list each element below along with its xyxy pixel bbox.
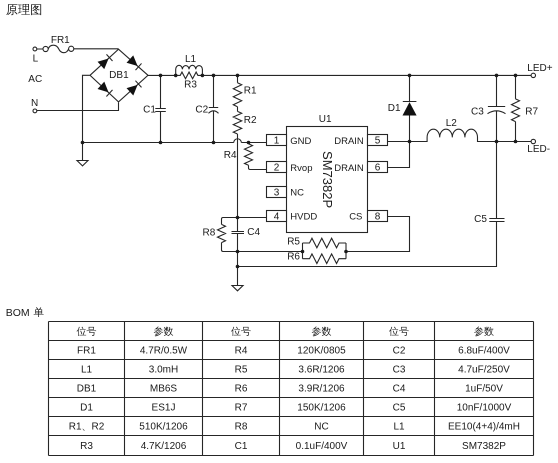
svg-text:R7: R7 [235, 403, 248, 414]
svg-text:L1: L1 [81, 365, 93, 376]
svg-text:R4: R4 [235, 346, 248, 357]
svg-text:R4: R4 [224, 150, 237, 161]
svg-text:R8: R8 [235, 422, 248, 433]
svg-text:R2: R2 [244, 115, 257, 126]
svg-text:DRAIN: DRAIN [334, 136, 364, 147]
svg-text:R5: R5 [287, 236, 300, 247]
svg-text:R3: R3 [80, 441, 93, 452]
svg-text:3.6R/1206: 3.6R/1206 [298, 365, 345, 376]
svg-text:D1: D1 [388, 103, 401, 114]
svg-text:FR1: FR1 [51, 35, 70, 46]
svg-text:10nF/1000V: 10nF/1000V [457, 403, 512, 414]
svg-text:DRAIN: DRAIN [334, 163, 364, 174]
svg-text:GND: GND [290, 136, 311, 147]
svg-text:150K/1206: 150K/1206 [297, 403, 346, 414]
svg-text:C1: C1 [143, 104, 156, 115]
svg-text:R6: R6 [287, 251, 300, 262]
svg-text:L1: L1 [393, 422, 405, 433]
svg-text:CS: CS [349, 212, 362, 223]
svg-text:EE10(4+4)/4mH: EE10(4+4)/4mH [448, 422, 520, 433]
svg-text:C2: C2 [195, 104, 208, 115]
svg-text:C3: C3 [393, 365, 406, 376]
svg-text:1: 1 [274, 136, 280, 147]
svg-text:N: N [31, 98, 38, 109]
svg-text:SM7382P: SM7382P [320, 151, 335, 208]
svg-text:4.7uF/250V: 4.7uF/250V [458, 365, 510, 376]
svg-text:U1: U1 [393, 441, 406, 452]
svg-text:DB1: DB1 [109, 70, 129, 81]
svg-text:L: L [33, 54, 39, 65]
svg-text:R7: R7 [525, 106, 538, 117]
svg-text:L2: L2 [446, 118, 458, 129]
svg-text:C1: C1 [235, 441, 248, 452]
svg-text:LED-: LED- [527, 144, 550, 155]
svg-text:6: 6 [375, 163, 381, 174]
svg-text:C4: C4 [393, 384, 406, 395]
svg-text:8: 8 [375, 212, 381, 223]
svg-text:BOM: BOM [6, 307, 30, 319]
svg-text:3: 3 [274, 188, 280, 199]
svg-text:0.1uF/400V: 0.1uF/400V [296, 441, 348, 452]
svg-text:C5: C5 [393, 403, 406, 414]
svg-text:NC: NC [314, 422, 328, 433]
svg-text:R5: R5 [235, 365, 248, 376]
svg-text:R1: R1 [69, 422, 82, 433]
svg-text:4.7K/1206: 4.7K/1206 [141, 441, 187, 452]
svg-text:1uF/50V: 1uF/50V [465, 384, 503, 395]
svg-text:C4: C4 [247, 227, 260, 238]
svg-text:L1: L1 [185, 54, 197, 65]
svg-text:D1: D1 [80, 403, 93, 414]
svg-text:2: 2 [274, 163, 280, 174]
svg-text:510K/1206: 510K/1206 [139, 422, 188, 433]
svg-text:4: 4 [274, 212, 280, 223]
svg-text:6.8uF/400V: 6.8uF/400V [458, 346, 510, 357]
svg-text:HVDD: HVDD [290, 212, 317, 223]
svg-text:SM7382P: SM7382P [462, 441, 506, 452]
svg-text:C3: C3 [471, 106, 484, 117]
svg-text:5: 5 [375, 136, 381, 147]
svg-text:AC: AC [28, 74, 42, 85]
svg-text:R6: R6 [235, 384, 248, 395]
svg-text:FR1: FR1 [77, 346, 96, 357]
svg-text:MB6S: MB6S [150, 384, 178, 395]
svg-text:NC: NC [290, 187, 304, 198]
svg-text:U1: U1 [319, 114, 332, 125]
svg-text:R8: R8 [203, 228, 216, 239]
svg-text:3.0mH: 3.0mH [149, 365, 178, 376]
svg-text:120K/0805: 120K/0805 [297, 346, 346, 357]
svg-text:C5: C5 [474, 214, 487, 225]
svg-text:C2: C2 [393, 346, 406, 357]
svg-text:ES1J: ES1J [152, 403, 176, 414]
svg-text:R1: R1 [244, 86, 257, 97]
svg-text:R2: R2 [92, 422, 105, 433]
svg-text:LED+: LED+ [527, 63, 552, 74]
svg-text:R3: R3 [184, 79, 197, 90]
svg-text:3.9R/1206: 3.9R/1206 [298, 384, 345, 395]
svg-text:Rvop: Rvop [290, 163, 312, 174]
svg-text:DB1: DB1 [77, 384, 97, 395]
svg-text:4.7R/0.5W: 4.7R/0.5W [140, 346, 188, 357]
